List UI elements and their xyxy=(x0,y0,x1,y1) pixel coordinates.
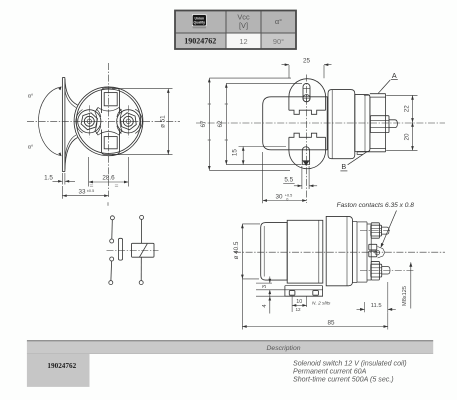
svg-text:5.5: 5.5 xyxy=(284,177,293,184)
svg-text:Solenoid switch 12 V (insulate: Solenoid switch 12 V (insulated coil) xyxy=(293,359,407,367)
svg-text:12: 12 xyxy=(239,37,247,46)
svg-text:M8x125: M8x125 xyxy=(402,286,408,306)
svg-text:Description: Description xyxy=(267,345,301,352)
svg-text:10: 10 xyxy=(296,299,302,305)
svg-text:28.6: 28.6 xyxy=(102,175,115,182)
svg-text:A: A xyxy=(392,71,397,80)
svg-text:±0.5: ±0.5 xyxy=(87,189,94,193)
svg-text:90°: 90° xyxy=(273,37,284,46)
svg-text:α°: α° xyxy=(28,94,33,100)
svg-text:33: 33 xyxy=(78,188,86,195)
svg-text:67: 67 xyxy=(200,120,207,128)
svg-text:15: 15 xyxy=(231,149,238,157)
svg-text:α°: α° xyxy=(275,17,282,26)
svg-text:ø 40.5: ø 40.5 xyxy=(233,241,240,259)
svg-text:1.5: 1.5 xyxy=(44,175,53,182)
svg-text:α°: α° xyxy=(28,145,33,151)
svg-text:85: 85 xyxy=(327,319,335,326)
svg-text:N. 2 slits: N. 2 slits xyxy=(312,301,331,307)
svg-text:20: 20 xyxy=(403,133,410,141)
svg-text:11.5: 11.5 xyxy=(371,303,382,309)
svg-text:30: 30 xyxy=(275,193,283,200)
svg-text:3: 3 xyxy=(262,285,268,288)
svg-text:12: 12 xyxy=(295,307,301,312)
svg-text:Short-time current 500A (5 sec: Short-time current 500A (5 sec.) xyxy=(293,375,394,383)
svg-text:[V]: [V] xyxy=(239,21,248,30)
svg-text:Faston contacts 6.35 x 0.8: Faston contacts 6.35 x 0.8 xyxy=(337,202,415,209)
svg-text:22: 22 xyxy=(403,105,410,113)
svg-text:Quality: Quality xyxy=(194,21,206,25)
svg-text:62: 62 xyxy=(217,120,224,128)
svg-text:4: 4 xyxy=(262,304,268,308)
svg-text:B: B xyxy=(341,162,346,171)
svg-text:19024762: 19024762 xyxy=(47,362,76,370)
svg-text:Permanent current 60A: Permanent current 60A xyxy=(293,367,367,375)
svg-text:19024762: 19024762 xyxy=(184,37,216,46)
svg-text:0: 0 xyxy=(286,198,288,202)
svg-text:ø 51: ø 51 xyxy=(159,115,166,128)
svg-text:25: 25 xyxy=(303,57,311,64)
